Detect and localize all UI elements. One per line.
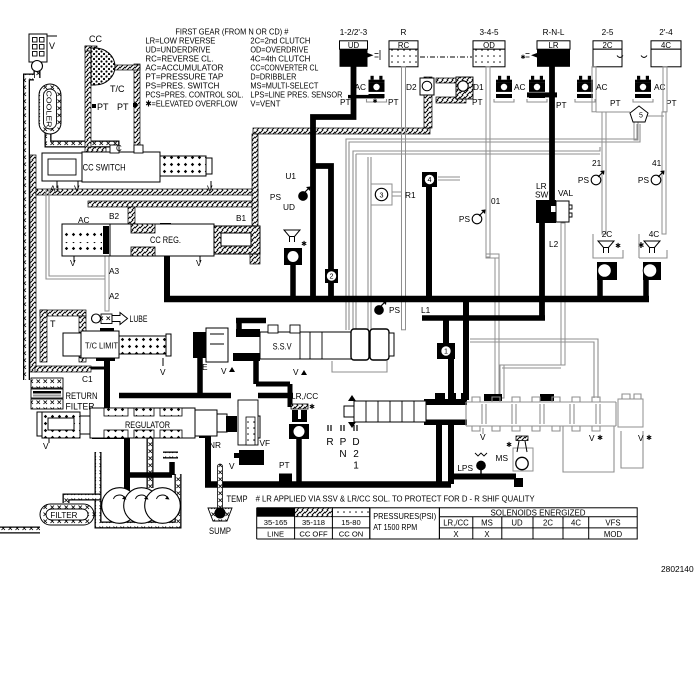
svg-text:5: 5 xyxy=(639,113,643,120)
svg-text:✱: ✱ xyxy=(506,441,512,449)
svg-text:PT: PT xyxy=(610,98,621,108)
svg-text:P: P xyxy=(340,437,347,448)
svg-text:PT: PT xyxy=(97,102,109,112)
svg-text:R: R xyxy=(326,437,333,448)
svg-text:PS: PS xyxy=(638,175,650,185)
svg-text:LPS: LPS xyxy=(457,463,473,473)
svg-text:3: 3 xyxy=(380,190,384,199)
svg-text:D: D xyxy=(352,437,359,448)
svg-text:RC: RC xyxy=(398,41,410,50)
svg-text:MOD: MOD xyxy=(604,530,623,539)
svg-text:C: C xyxy=(116,144,122,153)
svg-text:B2: B2 xyxy=(109,211,120,221)
svg-text:D1: D1 xyxy=(473,82,484,92)
svg-text:1: 1 xyxy=(444,347,448,356)
svg-text:A1: A1 xyxy=(50,184,61,194)
svg-text:NR: NR xyxy=(209,440,221,450)
svg-text:LINE: LINE xyxy=(267,530,284,539)
svg-text:2'-4: 2'-4 xyxy=(659,28,673,37)
svg-text:T/C: T/C xyxy=(110,84,125,94)
svg-text:CC: CC xyxy=(89,34,102,44)
svg-text:PT: PT xyxy=(556,100,567,110)
svg-text:C1: C1 xyxy=(82,374,93,384)
svg-text:✱: ✱ xyxy=(301,240,307,248)
svg-text:2: 2 xyxy=(353,449,359,460)
svg-text:AC: AC xyxy=(596,82,608,92)
svg-text:B1: B1 xyxy=(236,213,247,223)
svg-text:AC: AC xyxy=(514,82,526,92)
svg-text:TEMP: TEMP xyxy=(227,494,248,504)
svg-text:L1: L1 xyxy=(421,305,431,315)
svg-text:A2: A2 xyxy=(109,291,120,301)
svg-text:AT 1500 RPM: AT 1500 RPM xyxy=(373,523,417,532)
svg-text:PT: PT xyxy=(472,97,483,107)
svg-text:PS: PS xyxy=(578,175,590,185)
svg-text:CC REG.: CC REG. xyxy=(150,235,181,245)
svg-text:2C: 2C xyxy=(543,519,553,528)
svg-text:35-118: 35-118 xyxy=(302,518,325,527)
svg-text:1-2/2'-3: 1-2/2'-3 xyxy=(340,28,368,37)
svg-text:S.S.V: S.S.V xyxy=(273,342,293,352)
svg-text:LR: LR xyxy=(549,41,559,50)
svg-text:15-80: 15-80 xyxy=(341,518,360,527)
svg-text:✱: ✱ xyxy=(309,403,315,411)
svg-text:CC ON: CC ON xyxy=(339,530,363,539)
svg-text:V: V xyxy=(638,433,644,443)
svg-text:V: V xyxy=(196,258,202,268)
svg-text:V: V xyxy=(589,433,595,443)
svg-text:SOLENOIDS ENERGIZED: SOLENOIDS ENERGIZED xyxy=(491,508,586,517)
svg-text:PT: PT xyxy=(388,97,399,107)
svg-text:UD: UD xyxy=(348,41,360,50)
svg-text:CC OFF: CC OFF xyxy=(299,530,328,539)
svg-text:V: V xyxy=(207,184,213,194)
svg-text:SW: SW xyxy=(535,190,549,200)
svg-text:T/C LIMIT: T/C LIMIT xyxy=(85,341,119,351)
svg-text:✱: ✱ xyxy=(646,434,652,442)
svg-text:PCS: PCS xyxy=(243,454,259,463)
svg-text:V: V xyxy=(480,432,486,442)
svg-text:E: E xyxy=(202,362,208,372)
svg-text:PT: PT xyxy=(666,98,677,108)
svg-text:V: V xyxy=(160,367,166,377)
svg-text:AC: AC xyxy=(654,82,666,92)
svg-text:V: V xyxy=(43,441,49,451)
svg-text:D2: D2 xyxy=(406,82,417,92)
svg-text:X: X xyxy=(453,530,459,539)
svg-text:2802140: 2802140 xyxy=(661,564,694,574)
svg-text:✱: ✱ xyxy=(520,54,525,61)
svg-text:FILTER: FILTER xyxy=(50,511,77,520)
svg-text:X: X xyxy=(484,530,490,539)
svg-text:REGULATOR: REGULATOR xyxy=(125,420,170,430)
svg-text:01: 01 xyxy=(491,196,501,206)
svg-text:VFS: VFS xyxy=(605,519,620,528)
svg-text:VAL: VAL xyxy=(558,188,573,198)
svg-text:PT: PT xyxy=(340,97,351,107)
svg-text:4C: 4C xyxy=(661,41,671,50)
svg-text:VF: VF xyxy=(260,438,271,448)
svg-text:UD: UD xyxy=(511,519,523,528)
svg-text:R: R xyxy=(401,28,407,37)
svg-text:COOLER: COOLER xyxy=(45,91,54,129)
svg-text:A3: A3 xyxy=(109,266,120,276)
svg-text:41: 41 xyxy=(652,158,662,168)
svg-text:R1: R1 xyxy=(405,190,416,200)
svg-text:PT: PT xyxy=(279,460,290,470)
svg-text:✱: ✱ xyxy=(372,98,377,105)
svg-text:V: V xyxy=(221,366,227,376)
svg-text:# LR APPLIED VIA SSV & LR/CC: # LR APPLIED VIA SSV & LR/CC SOL. TO PRO… xyxy=(256,495,535,504)
svg-text:4C: 4C xyxy=(649,229,660,239)
svg-text:PS: PS xyxy=(270,192,282,202)
svg-text:V: V xyxy=(49,41,55,51)
svg-text:V=VENT: V=VENT xyxy=(250,99,280,109)
svg-text:PS: PS xyxy=(389,305,401,315)
svg-text:SUMP: SUMP xyxy=(209,526,231,536)
svg-text:PS: PS xyxy=(459,214,471,224)
svg-text:L2: L2 xyxy=(549,239,559,249)
svg-text:T: T xyxy=(50,319,56,329)
svg-text:V: V xyxy=(74,184,80,194)
svg-text:✱=ELEVATED OVERFLOW: ✱=ELEVATED OVERFLOW xyxy=(145,99,237,109)
svg-text:N: N xyxy=(339,449,346,460)
svg-text:OD: OD xyxy=(483,41,495,50)
svg-text:V: V xyxy=(293,367,299,377)
svg-text:PT: PT xyxy=(117,102,129,112)
svg-text:4C: 4C xyxy=(571,519,581,528)
svg-text:4: 4 xyxy=(428,175,432,184)
svg-text:V: V xyxy=(229,461,235,471)
svg-text:RETURN: RETURN xyxy=(66,391,98,401)
svg-text:21: 21 xyxy=(592,158,602,168)
svg-text:MS: MS xyxy=(481,519,493,528)
svg-text:V: V xyxy=(70,258,76,268)
svg-text:2C: 2C xyxy=(603,41,613,50)
svg-text:2: 2 xyxy=(330,272,334,281)
svg-text:LUBE: LUBE xyxy=(130,314,148,324)
svg-text:R-N-L: R-N-L xyxy=(543,28,565,37)
svg-text:2C: 2C xyxy=(602,229,613,239)
svg-text:CC SWITCH: CC SWITCH xyxy=(83,163,126,173)
svg-text:✱: ✱ xyxy=(615,242,621,250)
svg-text:LR,/CC: LR,/CC xyxy=(443,519,469,528)
svg-text:35-165: 35-165 xyxy=(264,518,288,527)
svg-text:U1: U1 xyxy=(285,171,296,181)
svg-text:LR,/CC: LR,/CC xyxy=(291,391,318,401)
svg-text:1: 1 xyxy=(353,461,359,472)
svg-text:UD: UD xyxy=(283,202,295,212)
svg-text:2-5: 2-5 xyxy=(602,28,614,37)
svg-text:MS: MS xyxy=(496,453,509,463)
svg-text:3-4-5: 3-4-5 xyxy=(479,28,499,37)
svg-text:PRESSURES(PSI): PRESSURES(PSI) xyxy=(373,512,436,521)
svg-text:✱: ✱ xyxy=(597,434,603,442)
